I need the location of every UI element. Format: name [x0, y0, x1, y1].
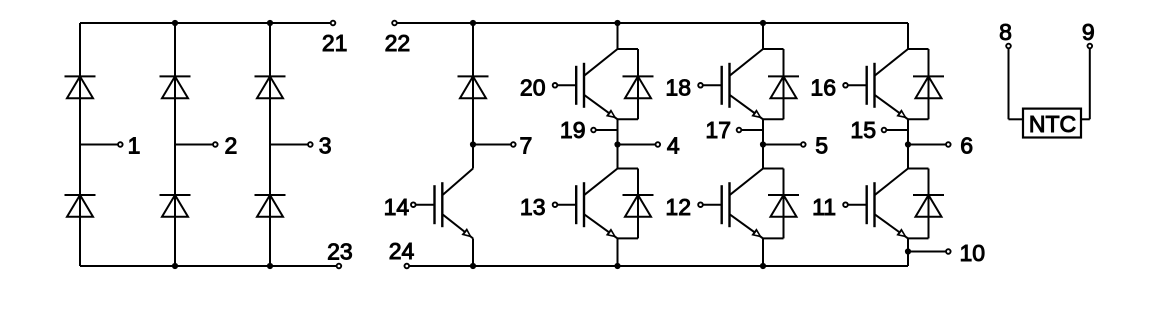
svg-text:18: 18 [665, 75, 691, 101]
svg-text:13: 13 [520, 194, 546, 220]
svg-text:3: 3 [319, 132, 332, 158]
svg-text:19: 19 [560, 117, 586, 143]
svg-text:NTC: NTC [1029, 111, 1076, 137]
svg-text:7: 7 [520, 132, 533, 158]
svg-text:20: 20 [520, 75, 546, 101]
svg-text:14: 14 [384, 194, 410, 220]
svg-text:23: 23 [327, 239, 353, 265]
svg-text:4: 4 [667, 132, 680, 158]
svg-text:21: 21 [322, 30, 348, 56]
svg-text:5: 5 [815, 132, 828, 158]
svg-text:15: 15 [850, 117, 876, 143]
svg-text:11: 11 [812, 194, 836, 220]
svg-text:12: 12 [665, 194, 691, 220]
svg-text:17: 17 [705, 117, 731, 143]
svg-text:9: 9 [1082, 19, 1095, 45]
svg-text:22: 22 [385, 30, 411, 56]
svg-text:8: 8 [999, 19, 1012, 45]
svg-text:2: 2 [225, 132, 238, 158]
svg-text:6: 6 [960, 132, 973, 158]
svg-text:16: 16 [810, 75, 836, 101]
svg-text:24: 24 [389, 238, 415, 264]
svg-text:10: 10 [960, 240, 986, 266]
svg-text:1: 1 [128, 132, 141, 158]
